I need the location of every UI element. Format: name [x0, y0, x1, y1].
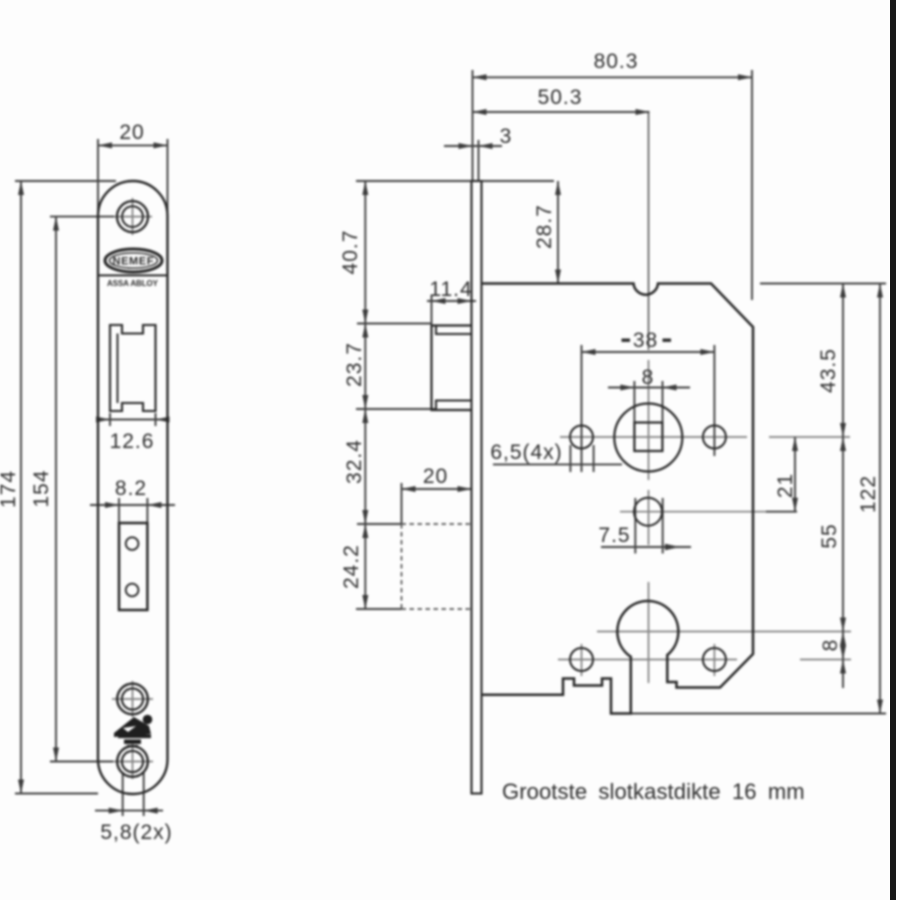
svg-text:8: 8: [642, 366, 655, 389]
svg-text:122: 122: [857, 475, 880, 513]
svg-text:8.2: 8.2: [115, 477, 147, 500]
svg-text:40.7: 40.7: [339, 230, 362, 275]
svg-text:7.5: 7.5: [598, 524, 630, 547]
svg-text:24.2: 24.2: [340, 544, 363, 589]
svg-text:11.4: 11.4: [429, 278, 472, 301]
svg-text:28.7: 28.7: [533, 204, 556, 249]
svg-text:6,5(4x): 6,5(4x): [490, 441, 562, 464]
svg-text:80.3: 80.3: [594, 50, 639, 73]
svg-text:32.4: 32.4: [343, 439, 366, 484]
svg-text:20: 20: [119, 121, 144, 144]
svg-text:23.7: 23.7: [343, 342, 366, 387]
svg-text:43.5: 43.5: [817, 348, 840, 393]
svg-text:NEMEF: NEMEF: [113, 256, 155, 268]
svg-text:ASSA ABLOY: ASSA ABLOY: [107, 279, 159, 288]
svg-text:8: 8: [819, 639, 842, 652]
svg-text:Grootste slotkastdikte 16 mm: Grootste slotkastdikte 16 mm: [502, 779, 805, 804]
svg-text:50.3: 50.3: [538, 86, 583, 109]
svg-text:55: 55: [818, 523, 841, 548]
svg-text:38: 38: [633, 329, 658, 352]
svg-text:20: 20: [423, 465, 448, 488]
svg-text:21: 21: [774, 473, 797, 498]
svg-text:12.6: 12.6: [110, 430, 155, 453]
svg-text:154: 154: [30, 469, 53, 507]
svg-text:3: 3: [500, 125, 513, 148]
svg-text:5,8(2x): 5,8(2x): [100, 821, 172, 844]
svg-text:174: 174: [0, 470, 20, 508]
